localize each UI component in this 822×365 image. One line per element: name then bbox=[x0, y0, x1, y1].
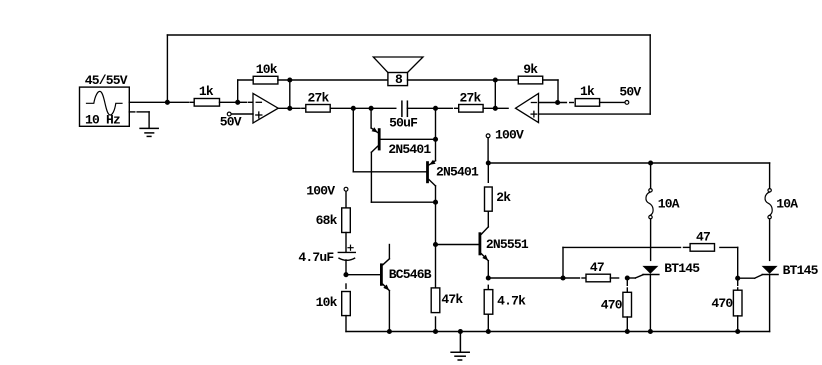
wire 100V left drop bbox=[345, 191, 347, 208]
node rail ground bbox=[458, 329, 463, 334]
op-amp U1 bbox=[253, 93, 278, 123]
wire pin stub R3 bbox=[302, 107, 305, 109]
wire pin stub R12 bbox=[582, 277, 585, 279]
U1 minus sign bbox=[256, 101, 261, 103]
resistor R8 4.7k bbox=[484, 290, 493, 315]
svg-text:47: 47 bbox=[590, 260, 604, 275]
U2 minus sign bbox=[531, 102, 536, 104]
wire pin stub R6 bbox=[570, 102, 574, 104]
wire C1 to R4 bbox=[407, 107, 452, 109]
node rail thyristor 1 bbox=[648, 329, 653, 334]
resistor R7 2k bbox=[485, 187, 493, 211]
node rail 470 right bbox=[735, 329, 740, 334]
wire R10 to rail bbox=[345, 316, 347, 332]
thyristor D1 BT145 triangle bbox=[642, 266, 658, 274]
wire op-amp U2 + input feed bbox=[539, 113, 651, 115]
wire source output bbox=[129, 101, 189, 103]
wire gate 2 lead bbox=[738, 277, 755, 279]
capacitor C1 50uF bbox=[401, 101, 403, 116]
wire fuse 1 to thyristor 1 bbox=[650, 219, 652, 261]
U2 plus sign bbox=[531, 113, 537, 115]
svg-text:68k: 68k bbox=[316, 213, 338, 228]
svg-text:9k: 9k bbox=[523, 62, 538, 77]
Q2 emitter arrow bbox=[429, 160, 435, 165]
wire pin stub R14 bbox=[626, 288, 628, 292]
resistor R13 47 bbox=[690, 244, 714, 252]
terminal 50V right bbox=[625, 101, 629, 105]
wire 9k left bbox=[495, 79, 518, 81]
capacitor C2 4.7uF plus plate bbox=[338, 251, 355, 253]
svg-text:4.7k: 4.7k bbox=[497, 294, 526, 309]
svg-text:27k: 27k bbox=[308, 90, 330, 105]
svg-text:100V: 100V bbox=[306, 183, 335, 198]
wire U2 - input bbox=[539, 102, 567, 104]
wire pin stub R13 bbox=[684, 246, 690, 248]
wire feedback riser U1 bbox=[237, 80, 239, 102]
thyristor D2 cathode bar bbox=[762, 274, 778, 276]
svg-text:2N5551: 2N5551 bbox=[486, 237, 529, 252]
node 100V rail left bbox=[486, 160, 491, 165]
source V1 sine waveform bbox=[86, 91, 123, 115]
wire pin stub R15 bbox=[737, 288, 739, 290]
wire R12 to gate node bbox=[610, 277, 618, 279]
node Q2 emitter tie bbox=[433, 106, 438, 111]
resistor R1 1k bbox=[194, 99, 219, 107]
wire pin stub R8 bbox=[487, 285, 489, 289]
Q4 emitter arrow bbox=[383, 285, 389, 291]
svg-text:BC546B: BC546B bbox=[389, 267, 432, 282]
node Q4 base junction bbox=[343, 272, 348, 277]
wire R7 to Q3 collector bbox=[487, 211, 489, 227]
wire U1 output bbox=[278, 107, 300, 109]
resistor R10 10k bbox=[342, 292, 351, 316]
wire pin stub R10 bbox=[345, 284, 347, 288]
node input junction bbox=[165, 100, 170, 105]
node U2 inverting input bbox=[555, 100, 560, 105]
wire R15 to rail bbox=[737, 316, 739, 332]
transistor Q1 2N5401 base bar bbox=[378, 130, 381, 149]
resistor R4 27k bbox=[459, 105, 483, 113]
wire thyristor 2 cathode to rail bbox=[769, 275, 771, 332]
wire thyristor 1 cathode to rail bbox=[649, 275, 651, 332]
node thyristor 2 gate bbox=[735, 276, 740, 281]
node U1 output bbox=[287, 106, 292, 111]
wire fuse 2 to thyristor 2 bbox=[769, 219, 771, 261]
U1 plus sign bbox=[256, 114, 262, 116]
node collectors junction bbox=[433, 200, 438, 205]
ground GND1 bbox=[140, 127, 158, 129]
svg-text:470: 470 bbox=[601, 298, 623, 313]
wire Q4 base bbox=[349, 274, 380, 276]
svg-text:50uF: 50uF bbox=[389, 115, 418, 130]
wire source ground stub bbox=[129, 111, 135, 113]
wire top rail right drop bbox=[649, 35, 651, 114]
svg-text:BT145: BT145 bbox=[783, 263, 819, 278]
wire gate node to R14 bbox=[626, 278, 628, 285]
node rail 47k bbox=[433, 329, 438, 334]
svg-text:4.7uF: 4.7uF bbox=[298, 250, 334, 265]
wire collector chain down bbox=[435, 202, 437, 288]
wire node to U1 - input bbox=[238, 101, 247, 103]
transistor Q4 BC546B base bar bbox=[380, 265, 383, 285]
svg-text:10A: 10A bbox=[658, 197, 680, 212]
node gate riser tap bbox=[560, 275, 565, 280]
node U2 output bbox=[493, 106, 498, 111]
svg-text:50V: 50V bbox=[220, 114, 242, 129]
wire Q1 base to Q2 emitter line bbox=[381, 138, 436, 140]
wire 100V rail bbox=[488, 162, 769, 164]
wire Q1 collector bbox=[371, 146, 377, 152]
resistor R15 470 bbox=[733, 290, 742, 316]
node Q2 base drop bbox=[351, 106, 356, 111]
wire Q3 emitter bbox=[481, 254, 488, 261]
wire bottom rail bbox=[346, 331, 770, 333]
resistor R11 47k bbox=[431, 288, 440, 313]
wire top rail left drop bbox=[166, 35, 168, 102]
wire Q4 collector bbox=[388, 245, 390, 259]
wire rail to fuse 1 bbox=[650, 163, 652, 189]
wire R14 to rail bbox=[626, 317, 628, 332]
wire pin stub R4 bbox=[455, 107, 458, 109]
node Q1 emitter tie bbox=[369, 106, 374, 111]
node rail 4.7k bbox=[486, 329, 491, 334]
wire Q2 emitter drop bbox=[435, 108, 437, 160]
node Q3 emitter bbox=[486, 275, 491, 280]
wire gate node to R15 bbox=[737, 278, 739, 285]
wire R13 to thyristor 2 gate bbox=[720, 246, 738, 248]
svg-text:47k: 47k bbox=[441, 292, 463, 307]
source V1 45/55V 10Hz box bbox=[80, 87, 130, 126]
wire R8 to rail bbox=[487, 314, 489, 331]
resistor R2 10k bbox=[253, 76, 278, 84]
speaker LS1 horn bbox=[373, 57, 423, 73]
node feedback-output tie top bbox=[287, 77, 292, 82]
resistor R14 470 bbox=[623, 292, 632, 317]
terminal 100V right bbox=[486, 134, 490, 138]
terminal 50V left bbox=[227, 112, 231, 116]
svg-text:10 Hz: 10 Hz bbox=[85, 113, 120, 128]
node Q3 base junction bbox=[433, 242, 438, 247]
wire speaker to output riser bbox=[408, 79, 496, 81]
thyristor D2 BT145 triangle bbox=[762, 266, 778, 274]
resistor R5 9k bbox=[518, 76, 542, 84]
op-amp U2 bbox=[516, 93, 539, 122]
svg-text:2k: 2k bbox=[496, 190, 511, 205]
wire R1 to inverting node bbox=[220, 101, 238, 103]
wire 9k to U2 - input bbox=[543, 79, 558, 81]
svg-text:10k: 10k bbox=[256, 62, 278, 77]
transistor Q3 2N5551 base bar bbox=[478, 234, 481, 254]
svg-text:47: 47 bbox=[696, 229, 710, 244]
wire R6 to 50V terminal bbox=[600, 101, 625, 103]
C2 plus sign bbox=[348, 247, 353, 249]
wire 10k to speaker line bbox=[278, 79, 388, 81]
wire C2 to base node bbox=[345, 260, 347, 275]
wire R11 to rail bbox=[435, 317, 437, 332]
node rail Q4 emitter bbox=[387, 329, 392, 334]
svg-text:10A: 10A bbox=[776, 197, 798, 212]
thyristor D1 cathode bar bbox=[643, 274, 659, 276]
node rail 470 left bbox=[625, 329, 630, 334]
wire gate riser bbox=[562, 247, 564, 278]
wire output to feedback drop bbox=[289, 80, 291, 108]
transistor Q2 2N5401 base bar bbox=[426, 163, 429, 182]
svg-text:1k: 1k bbox=[580, 84, 595, 99]
svg-text:10k: 10k bbox=[316, 295, 338, 310]
wire output node riser bbox=[494, 80, 496, 108]
svg-text:45/55V: 45/55V bbox=[85, 73, 128, 88]
wire top feedback rail bbox=[167, 34, 650, 36]
wire Q3 base bbox=[436, 244, 479, 246]
resistor R6 1k bbox=[575, 99, 599, 107]
resistor R3 27k bbox=[306, 105, 330, 113]
node speaker line right bbox=[493, 77, 498, 82]
node U1 inverting input bbox=[235, 100, 240, 105]
ground GND2 bbox=[459, 332, 461, 353]
terminal 100V left bbox=[344, 187, 348, 191]
wire output line to Q2 base bbox=[352, 108, 354, 172]
svg-text:2N5401: 2N5401 bbox=[388, 142, 431, 157]
svg-text:1k: 1k bbox=[199, 84, 214, 99]
wire rail corner to fuse 2 bbox=[769, 163, 771, 189]
node thyristor 1 gate bbox=[625, 275, 630, 280]
svg-text:50V: 50V bbox=[619, 84, 641, 99]
svg-text:8: 8 bbox=[395, 72, 403, 87]
wire R9 to C2 bbox=[345, 233, 347, 253]
fuse F2 10A bbox=[768, 189, 771, 192]
svg-text:27k: 27k bbox=[460, 90, 482, 105]
svg-text:BT145: BT145 bbox=[664, 261, 700, 276]
wire Q4 emitter bbox=[383, 284, 390, 290]
fuse F1 10A bbox=[649, 189, 652, 192]
wire R3 to C1 bbox=[330, 107, 396, 109]
node fuse 1 tap bbox=[648, 160, 653, 165]
resistor R9 68k bbox=[342, 208, 351, 233]
resistor R12 47 bbox=[586, 274, 610, 282]
wire Q1 emitter drop bbox=[370, 108, 372, 128]
wire Q3 emitter to gate line bbox=[488, 277, 579, 279]
wire 50V terminal to U1 + input bbox=[231, 113, 253, 115]
Q3 emitter arrow bbox=[482, 255, 488, 261]
wire rail to R7 bbox=[487, 163, 489, 182]
wire Q2 collector bbox=[429, 180, 436, 186]
wire gate 1 lead bbox=[627, 277, 635, 279]
svg-text:2N5401: 2N5401 bbox=[436, 165, 479, 180]
C2 curved plate bbox=[338, 258, 355, 260]
svg-text:100V: 100V bbox=[495, 127, 524, 142]
node Q1 base junction bbox=[433, 137, 438, 142]
speaker LS1 8 ohm box bbox=[388, 73, 408, 86]
Q1 emitter arrow bbox=[372, 127, 378, 132]
wire pin stub R1 bbox=[191, 101, 194, 103]
svg-text:470: 470 bbox=[711, 296, 733, 311]
wire 100V drop bbox=[487, 138, 489, 163]
wire R4 to U2 output node bbox=[483, 107, 508, 109]
